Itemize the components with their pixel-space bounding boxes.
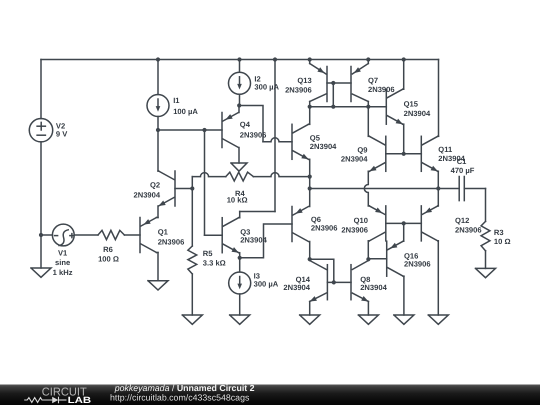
- svg-text:2N3904: 2N3904: [341, 155, 368, 164]
- svg-text:Q11: Q11: [438, 145, 453, 154]
- svg-text:2N3906: 2N3906: [404, 259, 431, 268]
- svg-text:1 kHz: 1 kHz: [53, 268, 73, 277]
- svg-text:2N3904: 2N3904: [360, 283, 387, 292]
- svg-text:2N3904: 2N3904: [240, 235, 267, 244]
- svg-text:300 µA: 300 µA: [254, 279, 279, 288]
- svg-text:C1: C1: [457, 157, 467, 166]
- svg-text:10 kΩ: 10 kΩ: [227, 195, 248, 204]
- svg-text:3.3 kΩ: 3.3 kΩ: [203, 258, 226, 267]
- svg-text:2N3904: 2N3904: [404, 109, 431, 118]
- svg-text:2N3904: 2N3904: [283, 283, 310, 292]
- svg-text:I1: I1: [173, 96, 180, 105]
- svg-text:sine: sine: [55, 258, 70, 267]
- svg-text:Q9: Q9: [357, 146, 367, 155]
- svg-text:2N3904: 2N3904: [133, 190, 160, 199]
- svg-text:R3: R3: [494, 228, 504, 237]
- svg-text:9 V: 9 V: [56, 130, 68, 139]
- svg-text:2N3906: 2N3906: [455, 225, 482, 234]
- svg-text:Q7: Q7: [368, 76, 378, 85]
- svg-text:2N3906: 2N3906: [311, 224, 338, 233]
- svg-text:2N3906: 2N3906: [285, 86, 312, 95]
- svg-text:LAB: LAB: [68, 395, 92, 405]
- svg-text:2N3906: 2N3906: [158, 237, 185, 246]
- svg-text:Q1: Q1: [158, 227, 169, 236]
- svg-text:Q2: Q2: [150, 180, 160, 189]
- svg-text:2N3906: 2N3906: [368, 85, 395, 94]
- svg-text:http://circuitlab.com/c433sc54: http://circuitlab.com/c433sc548cags: [110, 392, 250, 402]
- svg-text:100 Ω: 100 Ω: [98, 254, 119, 263]
- svg-text:470 µF: 470 µF: [451, 166, 475, 175]
- svg-text:Q12: Q12: [455, 216, 469, 225]
- svg-text:Q13: Q13: [297, 76, 311, 85]
- svg-text:2N3906: 2N3906: [341, 225, 368, 234]
- svg-text:R5: R5: [203, 249, 213, 258]
- svg-text:Q15: Q15: [404, 99, 419, 108]
- svg-text:V1: V1: [58, 248, 68, 257]
- svg-text:Q4: Q4: [240, 120, 251, 129]
- svg-text:R6: R6: [103, 245, 113, 254]
- svg-text:2N3904: 2N3904: [310, 142, 337, 151]
- svg-text:300 µA: 300 µA: [254, 82, 279, 91]
- svg-text:10 Ω: 10 Ω: [494, 237, 511, 246]
- svg-text:Q10: Q10: [354, 216, 368, 225]
- svg-text:100 µA: 100 µA: [173, 107, 198, 116]
- svg-text:2N3906: 2N3906: [240, 131, 267, 140]
